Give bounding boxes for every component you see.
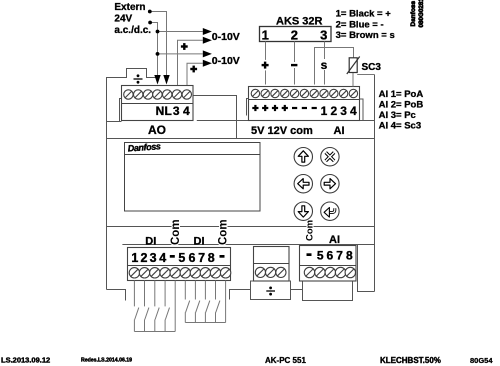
svg-text:AI 1= PoA: AI 1= PoA [379, 89, 424, 100]
svg-text:4: 4 [159, 251, 166, 265]
svg-text:080G0281.1: 080G0281.1 [418, 0, 425, 28]
svg-text:1: 1 [321, 104, 328, 118]
svg-text:0-10V: 0-10V [212, 55, 240, 67]
svg-text:DI: DI [194, 235, 205, 247]
svg-text:3: 3 [320, 27, 327, 42]
sensor SC3 [349, 58, 357, 73]
DI labels 1 2 3 4 - 5 6 7 8 - [170, 255, 175, 258]
plus symbols at outputs [181, 43, 197, 72]
wire: output 1 common branch [158, 31, 203, 33]
buttons [294, 148, 339, 221]
wire: 24V supply to terminal N [150, 23, 157, 76]
wire: SC3 to right-side run [357, 74, 374, 76]
node: output 2 junction [156, 52, 160, 56]
switch DI5 [185, 281, 189, 323]
bottom AI labels - 5 6 7 8 [307, 253, 312, 256]
arrowhead onto terminal L [163, 75, 169, 85]
wire: DI5-8 bus [185, 322, 225, 324]
svg-text:s: s [321, 58, 328, 72]
wire: AKS 32R pin 3 (s) to AI block [324, 42, 326, 85]
svg-text:3: 3 [150, 251, 157, 265]
svg-text:3= Brown = s: 3= Brown = s [336, 30, 395, 41]
button icon X [326, 153, 334, 161]
DI screw terminals [129, 268, 231, 278]
svg-text:AI: AI [329, 234, 340, 246]
svg-text:8: 8 [208, 251, 215, 265]
top bump earth symbol [134, 78, 143, 80]
svg-text:KLECHBST.50%: KLECHBST.50% [380, 356, 441, 365]
svg-text:Com: Com [218, 219, 230, 245]
button icon down [298, 206, 308, 217]
node: supply tap 2 [148, 21, 152, 25]
svg-text:1= Black = +: 1= Black = + [336, 9, 392, 20]
svg-text:Com: Com [170, 219, 182, 245]
svg-text:7: 7 [336, 249, 343, 263]
top AI labels + + + + - - - 1 2 3 4 [252, 105, 317, 111]
AO screw terminals [124, 90, 192, 99]
svg-text:80G54: 80G54 [470, 356, 493, 365]
display [125, 143, 261, 212]
top AI screw terminals [251, 89, 357, 97]
svg-text:4: 4 [350, 104, 357, 118]
arrowhead output 1 common [203, 28, 212, 35]
svg-text:L: L [165, 104, 172, 118]
switch DI2 [145, 281, 149, 332]
arrowhead output 2 common [203, 50, 212, 57]
earth symbol bottom [266, 290, 275, 292]
AO labels N L 3 4 [156, 104, 190, 118]
AKS wires [266, 42, 354, 85]
svg-text:2: 2 [330, 104, 337, 118]
top AI terminal block [247, 87, 364, 121]
housing outline [107, 69, 375, 301]
svg-text:3: 3 [340, 104, 347, 118]
switch DI7 [205, 281, 209, 323]
wire: DI5-8 common [225, 281, 227, 323]
svg-text:AI 4= Sc3: AI 4= Sc3 [379, 121, 422, 132]
wire: SC3 bottom pin to AI terminal 4 [352, 73, 354, 87]
svg-text:5: 5 [317, 249, 324, 263]
arrowhead output 2 signal [203, 60, 212, 67]
middle bottom terminal block (power) [251, 247, 291, 300]
DI terminal block [128, 248, 231, 281]
+ - s wire symbols [260, 60, 271, 71]
switch DI6 [195, 281, 199, 323]
AO terminal block [122, 86, 194, 121]
svg-text:5: 5 [178, 251, 185, 265]
svg-text:LS.2013.09.12: LS.2013.09.12 [1, 356, 50, 365]
supply and output wires [150, 12, 203, 86]
wire: AO terminal 3 signal 0-10V [178, 40, 203, 85]
node: supply tap 1 [148, 10, 152, 14]
svg-text:0-10V: 0-10V [212, 31, 240, 43]
wire: AO terminal 4 signal 0-10V [187, 63, 203, 85]
wire: AKS 32R pin 1 (+) to AI block [265, 42, 267, 85]
svg-text:7: 7 [198, 251, 205, 265]
button icon enter [329, 208, 335, 212]
DI input wires with switch contacts [134, 281, 225, 332]
svg-text:AKS 32R: AKS 32R [276, 15, 323, 27]
wire: AKS 32R pin 2 (-) to AI block [294, 42, 296, 85]
svg-text:2: 2 [141, 251, 148, 265]
svg-text:3: 3 [173, 104, 180, 118]
wire: output 2 common branch [158, 53, 203, 55]
svg-text:AI: AI [334, 125, 345, 137]
svg-text:AI 2= PoB: AI 2= PoB [379, 100, 424, 111]
svg-text:6: 6 [327, 249, 334, 263]
bottom AI terminal block [300, 246, 357, 301]
svg-text:Danfoss: Danfoss [410, 0, 417, 26]
button icon left [298, 179, 309, 189]
svg-text:4: 4 [183, 104, 190, 118]
switch DI4 [165, 281, 169, 332]
wire: DI1-4 common [174, 281, 176, 332]
svg-text:2= Blue = -: 2= Blue = - [336, 19, 384, 30]
svg-text:AK-PC 551: AK-PC 551 [265, 356, 306, 365]
svg-text:AO: AO [148, 123, 166, 137]
arrowhead onto terminal N [154, 75, 160, 85]
switch DI8 [216, 281, 220, 323]
node: output 1 junction [156, 30, 160, 34]
svg-text:a.c./d.c.: a.c./d.c. [114, 25, 151, 36]
svg-text:5V 12V com: 5V 12V com [251, 125, 313, 137]
svg-text:1: 1 [262, 27, 269, 42]
svg-text:SC3: SC3 [362, 62, 382, 73]
svg-text:8: 8 [346, 249, 353, 263]
svg-text:Com: Com [305, 220, 316, 241]
button icon up [298, 151, 308, 162]
svg-text:N: N [156, 104, 165, 118]
button icon right [324, 179, 335, 189]
arrowhead output 1 signal [203, 37, 212, 44]
svg-text:DI: DI [145, 235, 156, 247]
wire: SC3 top pin to AI minus terminal [315, 48, 354, 85]
wire: 24V supply to terminal L [150, 12, 167, 76]
svg-text:2: 2 [291, 27, 298, 42]
wire: DI1-4 bus [134, 331, 175, 333]
svg-text:6: 6 [189, 251, 196, 265]
svg-text:24V: 24V [114, 14, 132, 25]
switch DI3 [155, 281, 159, 332]
svg-text:AI 3= Pc: AI 3= Pc [379, 110, 416, 121]
svg-text:1: 1 [131, 251, 138, 265]
switch DI1 [134, 281, 138, 332]
svg-text:Extern: Extern [114, 2, 145, 13]
svg-text:Redes.LS.2014.06.19: Redes.LS.2014.06.19 [81, 358, 132, 364]
